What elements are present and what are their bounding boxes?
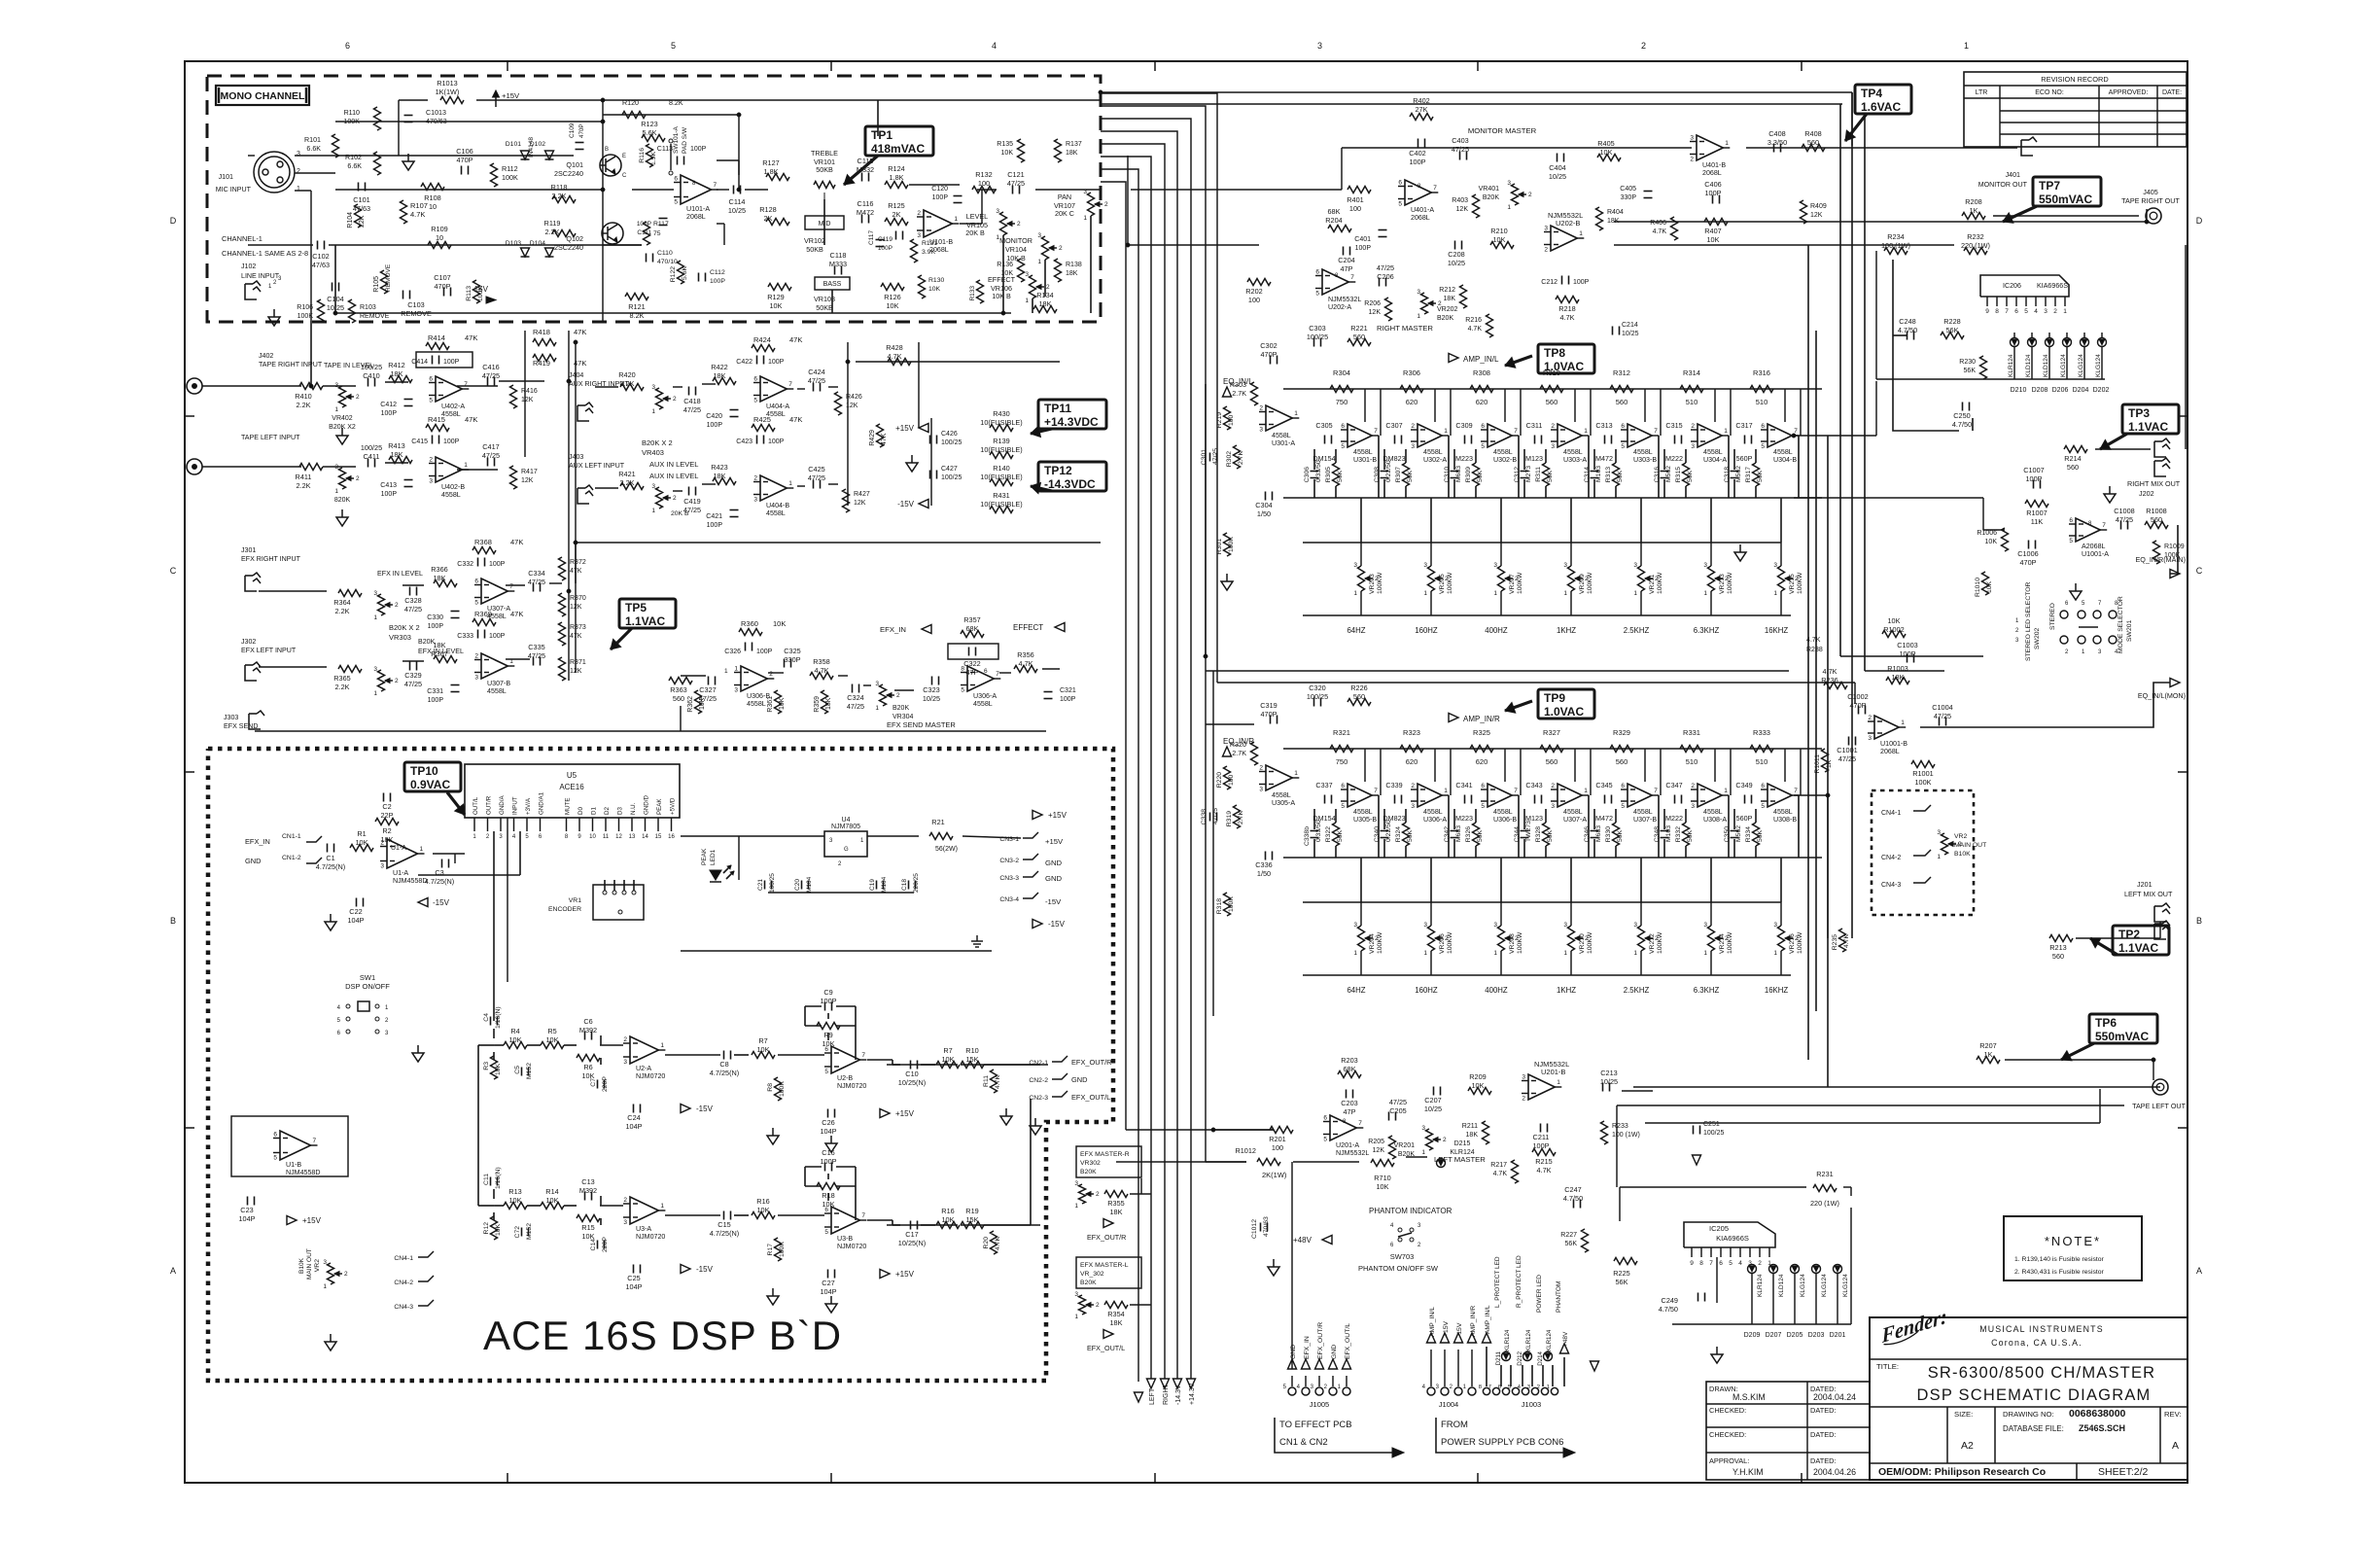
svg-text:J101: J101 xyxy=(219,173,233,181)
svg-text:100P: 100P xyxy=(1573,279,1590,286)
svg-text:M152: M152 xyxy=(526,1063,533,1079)
svg-text:J401: J401 xyxy=(2006,171,2020,179)
svg-text:510: 510 xyxy=(1686,757,1698,766)
svg-text:C332: C332 xyxy=(457,561,473,568)
svg-text:50KB: 50KB xyxy=(816,165,833,174)
svg-text:C411: C411 xyxy=(364,452,380,461)
svg-text:3: 3 xyxy=(1074,1180,1078,1187)
svg-text:TAPE LEFT INPUT: TAPE LEFT INPUT xyxy=(241,434,300,441)
svg-text:B20K: B20K xyxy=(1080,1169,1097,1175)
svg-text:NJM4558D: NJM4558D xyxy=(393,877,427,885)
resistor R310b xyxy=(1251,742,1258,765)
svg-text:13: 13 xyxy=(629,834,636,840)
svg-text:100: 100 xyxy=(1272,1143,1283,1152)
potentiometer VR210 xyxy=(1568,926,1575,951)
resistor R408 xyxy=(1802,145,1825,152)
wire eq lower output xyxy=(1794,794,1828,796)
svg-text:R139: R139 xyxy=(993,437,1009,445)
svg-text:12K: 12K xyxy=(1369,309,1382,316)
svg-text:AMP_IN/L: AMP_IN/L xyxy=(1485,1305,1491,1334)
resistor R1002b xyxy=(1882,631,1906,638)
svg-text:M472: M472 xyxy=(1595,454,1613,463)
svg-text:R334: R334 xyxy=(1745,826,1752,842)
svg-text:U4: U4 xyxy=(842,817,851,824)
svg-text:330P: 330P xyxy=(1621,194,1637,201)
wire xyxy=(1614,244,1954,246)
wire pot xyxy=(1780,543,1782,566)
capacitor C121 xyxy=(1012,186,1014,194)
svg-text:3: 3 xyxy=(1522,1074,1525,1081)
wire cell xyxy=(1574,389,1576,422)
svg-text:3: 3 xyxy=(1411,803,1415,810)
capacitor C113 xyxy=(677,157,679,165)
svg-text:B20K: B20K xyxy=(1437,315,1453,322)
capacitor C208 xyxy=(1454,241,1456,250)
resistor R226 xyxy=(1347,699,1371,706)
svg-text:3: 3 xyxy=(917,232,921,239)
svg-text:C72: C72 xyxy=(514,1226,521,1239)
svg-text:R102: R102 xyxy=(345,154,362,161)
svg-text:R16: R16 xyxy=(941,1207,954,1215)
svg-text:7: 7 xyxy=(1514,788,1518,794)
svg-text:100: 100 xyxy=(1228,414,1235,426)
resistor R315 xyxy=(1683,463,1690,486)
svg-text:C406: C406 xyxy=(1704,180,1721,189)
bus arrows and labels xyxy=(1187,1379,1196,1388)
capacitor C4 xyxy=(490,1017,492,1026)
svg-text:C334: C334 xyxy=(528,569,544,578)
svg-text:4.7K: 4.7K xyxy=(1653,228,1667,235)
resistor R230 xyxy=(1980,356,1987,379)
svg-text:3: 3 xyxy=(1633,562,1637,569)
capacitor C324 xyxy=(852,684,854,693)
svg-text:470P: 470P xyxy=(2019,558,2036,567)
wire cell drop xyxy=(1360,858,1362,902)
ground arrow xyxy=(1693,1155,1701,1165)
resistor R429 xyxy=(877,424,884,447)
svg-text:3: 3 xyxy=(996,208,999,215)
svg-text:GND: GND xyxy=(1331,1345,1338,1359)
svg-text:3: 3 xyxy=(1563,922,1567,929)
svg-text:GND/A: GND/A xyxy=(499,795,506,815)
svg-text:R130: R130 xyxy=(928,277,944,284)
capacitor C405 xyxy=(1644,191,1653,193)
svg-text:R11: R11 xyxy=(983,1075,990,1087)
svg-text:R318: R318 xyxy=(1216,898,1223,914)
eq input op-amp U301-A xyxy=(1266,405,1292,431)
resistor R9 xyxy=(817,1023,840,1030)
svg-text:56K: 56K xyxy=(1547,470,1554,482)
svg-text:R125: R125 xyxy=(888,201,904,210)
capacitor C1002 xyxy=(1858,706,1860,715)
svg-text:SW703: SW703 xyxy=(1390,1252,1415,1261)
ground xyxy=(1005,1108,1007,1116)
diode D104 xyxy=(545,248,554,257)
svg-text:E: E xyxy=(622,154,626,159)
svg-text:1: 1 xyxy=(1964,41,1969,51)
wire cell xyxy=(1504,749,1506,782)
svg-text:220 (1W): 220 (1W) xyxy=(1810,1199,1839,1208)
svg-text:1: 1 xyxy=(954,216,958,223)
resistor R367 xyxy=(434,656,457,663)
svg-text:R431: R431 xyxy=(993,491,1009,500)
svg-text:3: 3 xyxy=(651,384,655,391)
ground xyxy=(273,309,275,317)
capacitor C109 xyxy=(576,142,584,144)
resistor R311 xyxy=(1543,463,1550,486)
svg-text:3: 3 xyxy=(1703,562,1707,569)
resistor R372 xyxy=(559,557,566,580)
svg-text:56K: 56K xyxy=(1407,470,1414,482)
resistor R209 xyxy=(1468,1088,1491,1095)
resistor R116 xyxy=(647,144,653,167)
wire ic206 loop xyxy=(1893,260,1959,431)
power +15V xyxy=(287,1216,297,1225)
svg-text:100/25: 100/25 xyxy=(361,443,382,452)
capacitor C26 xyxy=(827,1109,829,1118)
capacitor C343 xyxy=(1534,795,1536,804)
svg-text:3: 3 xyxy=(753,497,757,504)
svg-text:470/63: 470/63 xyxy=(1263,1216,1270,1237)
capacitor C120 xyxy=(954,195,962,197)
svg-text:560: 560 xyxy=(2067,463,2079,472)
svg-text:DATED:: DATED: xyxy=(1810,1430,1837,1439)
svg-text:D201: D201 xyxy=(1830,1332,1846,1339)
svg-text:G: G xyxy=(844,847,849,853)
capacitor C1003 xyxy=(1907,654,1908,663)
svg-text:C424: C424 xyxy=(808,368,824,376)
resistor R122 xyxy=(678,261,684,284)
svg-text:1: 1 xyxy=(660,1042,664,1049)
wire bus mono to right xyxy=(1101,91,1852,93)
resistor R417 xyxy=(510,466,517,489)
svg-text:6: 6 xyxy=(1315,269,1319,276)
ground xyxy=(417,1045,419,1053)
svg-text:56K: 56K xyxy=(1477,829,1484,842)
svg-text:R354: R354 xyxy=(1107,1310,1124,1318)
svg-text:2SC2240: 2SC2240 xyxy=(554,169,583,178)
capacitor C27 xyxy=(827,1270,829,1279)
svg-text:D210: D210 xyxy=(2011,387,2027,394)
svg-text:1/50: 1/50 xyxy=(1257,509,1271,518)
svg-text:CN1-1: CN1-1 xyxy=(282,833,301,840)
svg-text:6: 6 xyxy=(273,1132,277,1139)
potentiometer VR206 xyxy=(1428,926,1435,951)
svg-text:R366: R366 xyxy=(431,565,447,574)
capacitor C72 xyxy=(521,1228,523,1237)
svg-text:6: 6 xyxy=(1481,783,1485,789)
svg-text:3: 3 xyxy=(1544,226,1548,232)
svg-text:STEREO LED SELECTOR: STEREO LED SELECTOR xyxy=(2025,581,2032,661)
svg-text:100K: 100K xyxy=(779,1242,786,1257)
svg-text:LEFT: LEFT xyxy=(1149,1387,1156,1405)
svg-text:U202-B: U202-B xyxy=(1556,219,1580,228)
efx master-l block xyxy=(1076,1257,1141,1288)
svg-text:18K: 18K xyxy=(1066,150,1078,157)
resistor R366 xyxy=(434,580,457,587)
transistor Q101 xyxy=(600,155,621,176)
svg-text:4558L: 4558L xyxy=(973,700,993,708)
resistor R211 xyxy=(1483,1121,1489,1144)
mono channel label xyxy=(216,86,309,105)
potentiometer VR212 xyxy=(1638,926,1645,951)
svg-text:R225: R225 xyxy=(1613,1269,1629,1278)
svg-text:3: 3 xyxy=(380,863,384,870)
svg-text:4558L: 4558L xyxy=(441,491,461,499)
svg-text:EFX_OUT/R: EFX_OUT/R xyxy=(1087,1233,1126,1242)
svg-text:MONITOR MASTER: MONITOR MASTER xyxy=(1468,126,1537,135)
led D211 xyxy=(1502,1352,1511,1361)
test point TP2 xyxy=(2113,926,2169,955)
svg-text:D2: D2 xyxy=(604,807,611,815)
svg-text:A: A xyxy=(2196,1266,2202,1276)
svg-text:NJM5532L: NJM5532L xyxy=(1328,296,1361,303)
svg-text:47/25: 47/25 xyxy=(404,605,422,614)
svg-text:DSP SCHEMATIC DIAGRAM: DSP SCHEMATIC DIAGRAM xyxy=(1917,1386,2152,1404)
svg-text:5.6K: 5.6K xyxy=(642,128,656,137)
capacitor C402 xyxy=(1417,139,1419,148)
svg-text:C214: C214 xyxy=(1622,322,1638,329)
wire pot bottom rail xyxy=(1303,974,1791,976)
svg-text:50KB: 50KB xyxy=(806,245,823,254)
svg-text:C336: C336 xyxy=(1255,860,1272,869)
svg-text:6: 6 xyxy=(429,376,433,383)
resistor R8 xyxy=(775,1077,782,1101)
svg-text:620: 620 xyxy=(1476,757,1488,766)
wire tp2 j201 xyxy=(2076,937,2160,939)
resistor R360 xyxy=(739,629,762,636)
svg-text:RIGHT MASTER: RIGHT MASTER xyxy=(1377,324,1433,333)
svg-text:47K: 47K xyxy=(574,328,586,336)
svg-text:B10K: B10K xyxy=(298,1257,305,1274)
svg-text:1: 1 xyxy=(734,666,738,673)
potentiometer VR203 xyxy=(1358,566,1365,591)
svg-text:4.7/50: 4.7/50 xyxy=(1563,1194,1583,1203)
svg-text:18K: 18K xyxy=(1466,1132,1479,1139)
op-amp U304-A xyxy=(1697,424,1722,447)
capacitor C345 xyxy=(1604,795,1606,804)
svg-text:418mVAC: 418mVAC xyxy=(871,142,925,156)
svg-text:R365: R365 xyxy=(333,674,350,683)
svg-text:2: 2 xyxy=(2053,308,2057,315)
svg-text:3: 3 xyxy=(1527,1385,1530,1390)
svg-text:C319: C319 xyxy=(1260,701,1277,710)
test point TP12 xyxy=(1038,462,1106,491)
svg-text:C5: C5 xyxy=(514,1066,521,1074)
svg-text:10K: 10K xyxy=(356,838,368,847)
svg-text:4558L: 4558L xyxy=(1272,791,1291,799)
op-amp U202-B xyxy=(1551,226,1577,251)
op-amp U303-B xyxy=(1627,424,1652,447)
wire eq upper output to right xyxy=(1794,435,1876,437)
svg-text:C333: C333 xyxy=(457,633,473,640)
svg-text:56K: 56K xyxy=(1477,470,1484,482)
op-amp U402-B xyxy=(436,457,462,482)
resistor R304 xyxy=(1330,386,1353,393)
svg-text:D203: D203 xyxy=(1808,1332,1825,1339)
svg-text:2: 2 xyxy=(1868,715,1872,721)
svg-text:6.6K: 6.6K xyxy=(306,145,321,153)
svg-text:12K: 12K xyxy=(1373,1147,1385,1154)
svg-text:REMOVE: REMOVE xyxy=(360,313,390,320)
svg-text:47/25: 47/25 xyxy=(528,651,545,660)
resistor R108 xyxy=(421,184,444,191)
svg-text:M683: M683 xyxy=(1455,825,1462,842)
resistor R210 xyxy=(1490,242,1514,249)
svg-text:5: 5 xyxy=(674,199,678,206)
svg-text:1.1VAC: 1.1VAC xyxy=(2118,941,2158,955)
svg-text:2: 2 xyxy=(1691,783,1695,789)
svg-text:M152: M152 xyxy=(526,1223,533,1240)
svg-text:U303-A: U303-A xyxy=(1563,456,1587,464)
svg-text:5: 5 xyxy=(1341,803,1345,810)
svg-text:IC206: IC206 xyxy=(2003,282,2021,290)
capacitor C309 xyxy=(1464,436,1466,444)
capacitor C329 xyxy=(409,662,411,671)
svg-text:18K: 18K xyxy=(434,574,446,582)
resistor R310 xyxy=(1540,386,1563,393)
svg-text:100P: 100P xyxy=(381,491,398,498)
svg-text:CN3-2: CN3-2 xyxy=(999,858,1019,864)
svg-text:MODE SELECTOR: MODE SELECTOR xyxy=(2117,596,2124,653)
title block xyxy=(1870,1317,2187,1480)
wire pot xyxy=(1780,902,1782,926)
resistor R413 xyxy=(389,457,412,464)
svg-text:C338: C338 xyxy=(1201,809,1207,824)
pot VR2 main out xyxy=(1942,833,1948,855)
svg-text:LTR: LTR xyxy=(1976,89,1988,96)
ground xyxy=(2075,583,2077,591)
svg-text:CN4-3: CN4-3 xyxy=(394,1304,413,1311)
resistor R137 xyxy=(1055,139,1062,162)
svg-text:4558L: 4558L xyxy=(487,687,507,695)
svg-text:R332: R332 xyxy=(1675,826,1682,842)
resistor R316 xyxy=(1750,386,1773,393)
capacitor C213 xyxy=(1602,1083,1604,1092)
svg-text:EFFECT: EFFECT xyxy=(1013,623,1043,632)
svg-text:Corona, CA U.S.A.: Corona, CA U.S.A. xyxy=(1991,1338,2082,1348)
capacitor C1008 xyxy=(2120,521,2122,530)
power +15V xyxy=(919,424,928,433)
svg-text:2: 2 xyxy=(1758,1260,1762,1267)
svg-text:R416: R416 xyxy=(521,388,538,395)
svg-text:C203: C203 xyxy=(1341,1099,1357,1107)
svg-text:D215: D215 xyxy=(1454,1140,1471,1147)
svg-text:1: 1 xyxy=(1547,1385,1550,1390)
svg-text:J301: J301 xyxy=(241,546,256,554)
svg-text:TITLE:: TITLE: xyxy=(1876,1362,1899,1371)
svg-text:7: 7 xyxy=(861,1212,865,1219)
resistor R1001 xyxy=(1911,761,1935,768)
svg-text:1.1VAC: 1.1VAC xyxy=(625,614,665,628)
svg-text:C208: C208 xyxy=(1448,250,1464,259)
svg-text:1. R139,140 is Fusible res: 1. R139,140 is Fusible resistor xyxy=(2014,1256,2105,1263)
wire tp7 line xyxy=(1614,221,2147,223)
resistor R332 xyxy=(1683,823,1690,846)
resistor R235 xyxy=(1839,929,1846,952)
svg-text:2: 2 xyxy=(769,671,773,678)
resistor R228 xyxy=(1941,333,1964,339)
svg-text:*NOTE*: *NOTE* xyxy=(2045,1234,2101,1248)
resistor R17 xyxy=(775,1238,782,1261)
capacitor C315 xyxy=(1674,436,1676,444)
pot VR2 main out ace xyxy=(328,1263,334,1284)
power -15V xyxy=(486,297,496,303)
svg-text:4.7K: 4.7K xyxy=(995,1237,1001,1250)
op-amp U1001-A xyxy=(2076,518,2100,542)
svg-text:3: 3 xyxy=(1551,443,1555,450)
svg-text:R233: R233 xyxy=(1612,1123,1628,1130)
svg-text:C248: C248 xyxy=(1899,317,1915,326)
svg-text:R206: R206 xyxy=(1364,300,1381,307)
wire pot xyxy=(1360,543,1362,566)
svg-text:560: 560 xyxy=(1353,333,1365,341)
wire bus left master feed2 xyxy=(1126,1129,1274,1131)
svg-text:LEVEL: LEVEL xyxy=(966,212,988,221)
diode PEAK LED1 xyxy=(710,870,721,880)
capacitor C422 xyxy=(756,356,758,365)
svg-text:47/25: 47/25 xyxy=(683,405,701,414)
svg-text:PAD S/W: PAD S/W xyxy=(682,126,688,154)
resistor R401 xyxy=(1347,187,1371,193)
svg-text:NJM4558D: NJM4558D xyxy=(286,1169,320,1176)
svg-text:15: 15 xyxy=(655,834,662,840)
svg-text:1: 1 xyxy=(1633,590,1637,597)
svg-text:10K: 10K xyxy=(699,697,706,710)
svg-text:1: 1 xyxy=(1901,719,1905,726)
svg-text:2: 2 xyxy=(1544,247,1548,254)
wire xyxy=(295,155,399,157)
svg-text:U305-A: U305-A xyxy=(1272,799,1295,807)
potentiometer VR208 xyxy=(1498,926,1505,951)
svg-text:D207: D207 xyxy=(1766,1332,1782,1339)
svg-text:1.8K: 1.8K xyxy=(889,173,903,182)
test point TP3 xyxy=(2122,404,2179,434)
svg-text:18K: 18K xyxy=(391,450,403,459)
svg-text:550mVAC: 550mVAC xyxy=(2095,1030,2149,1043)
svg-text:3: 3 xyxy=(323,1259,327,1266)
svg-text:2: 2 xyxy=(1522,1096,1525,1103)
svg-text:10K: 10K xyxy=(779,697,786,710)
svg-text:DATED:: DATED: xyxy=(1810,1456,1837,1465)
svg-text:R362: R362 xyxy=(687,696,694,713)
svg-text:C17: C17 xyxy=(905,1230,918,1239)
svg-text:56K: 56K xyxy=(1757,470,1764,482)
capacitor C308 xyxy=(1381,471,1389,473)
svg-text:1: 1 xyxy=(1773,950,1777,957)
svg-text:1: 1 xyxy=(373,690,377,697)
svg-text:12K: 12K xyxy=(854,500,866,507)
capacitor C421 xyxy=(730,509,739,511)
resistor R1013 xyxy=(440,97,464,104)
svg-text:C402: C402 xyxy=(1409,149,1425,158)
svg-text:R127: R127 xyxy=(762,158,779,167)
svg-text:75: 75 xyxy=(653,230,661,237)
capacitor C319 xyxy=(1270,716,1272,724)
svg-text:C20: C20 xyxy=(794,879,801,891)
svg-text:C419: C419 xyxy=(683,497,700,506)
svg-text:MUTE: MUTE xyxy=(565,797,572,815)
svg-text:R323: R323 xyxy=(1403,728,1420,737)
svg-text:2K(1W): 2K(1W) xyxy=(1262,1171,1287,1179)
svg-text:47K: 47K xyxy=(510,538,523,546)
svg-text:C309: C309 xyxy=(1455,421,1472,430)
svg-text:C312: C312 xyxy=(1514,467,1521,482)
test point TP5 xyxy=(619,599,676,628)
svg-text:R19: R19 xyxy=(965,1207,978,1215)
svg-text:+15V: +15V xyxy=(895,1109,915,1118)
wire cell xyxy=(1364,749,1366,782)
